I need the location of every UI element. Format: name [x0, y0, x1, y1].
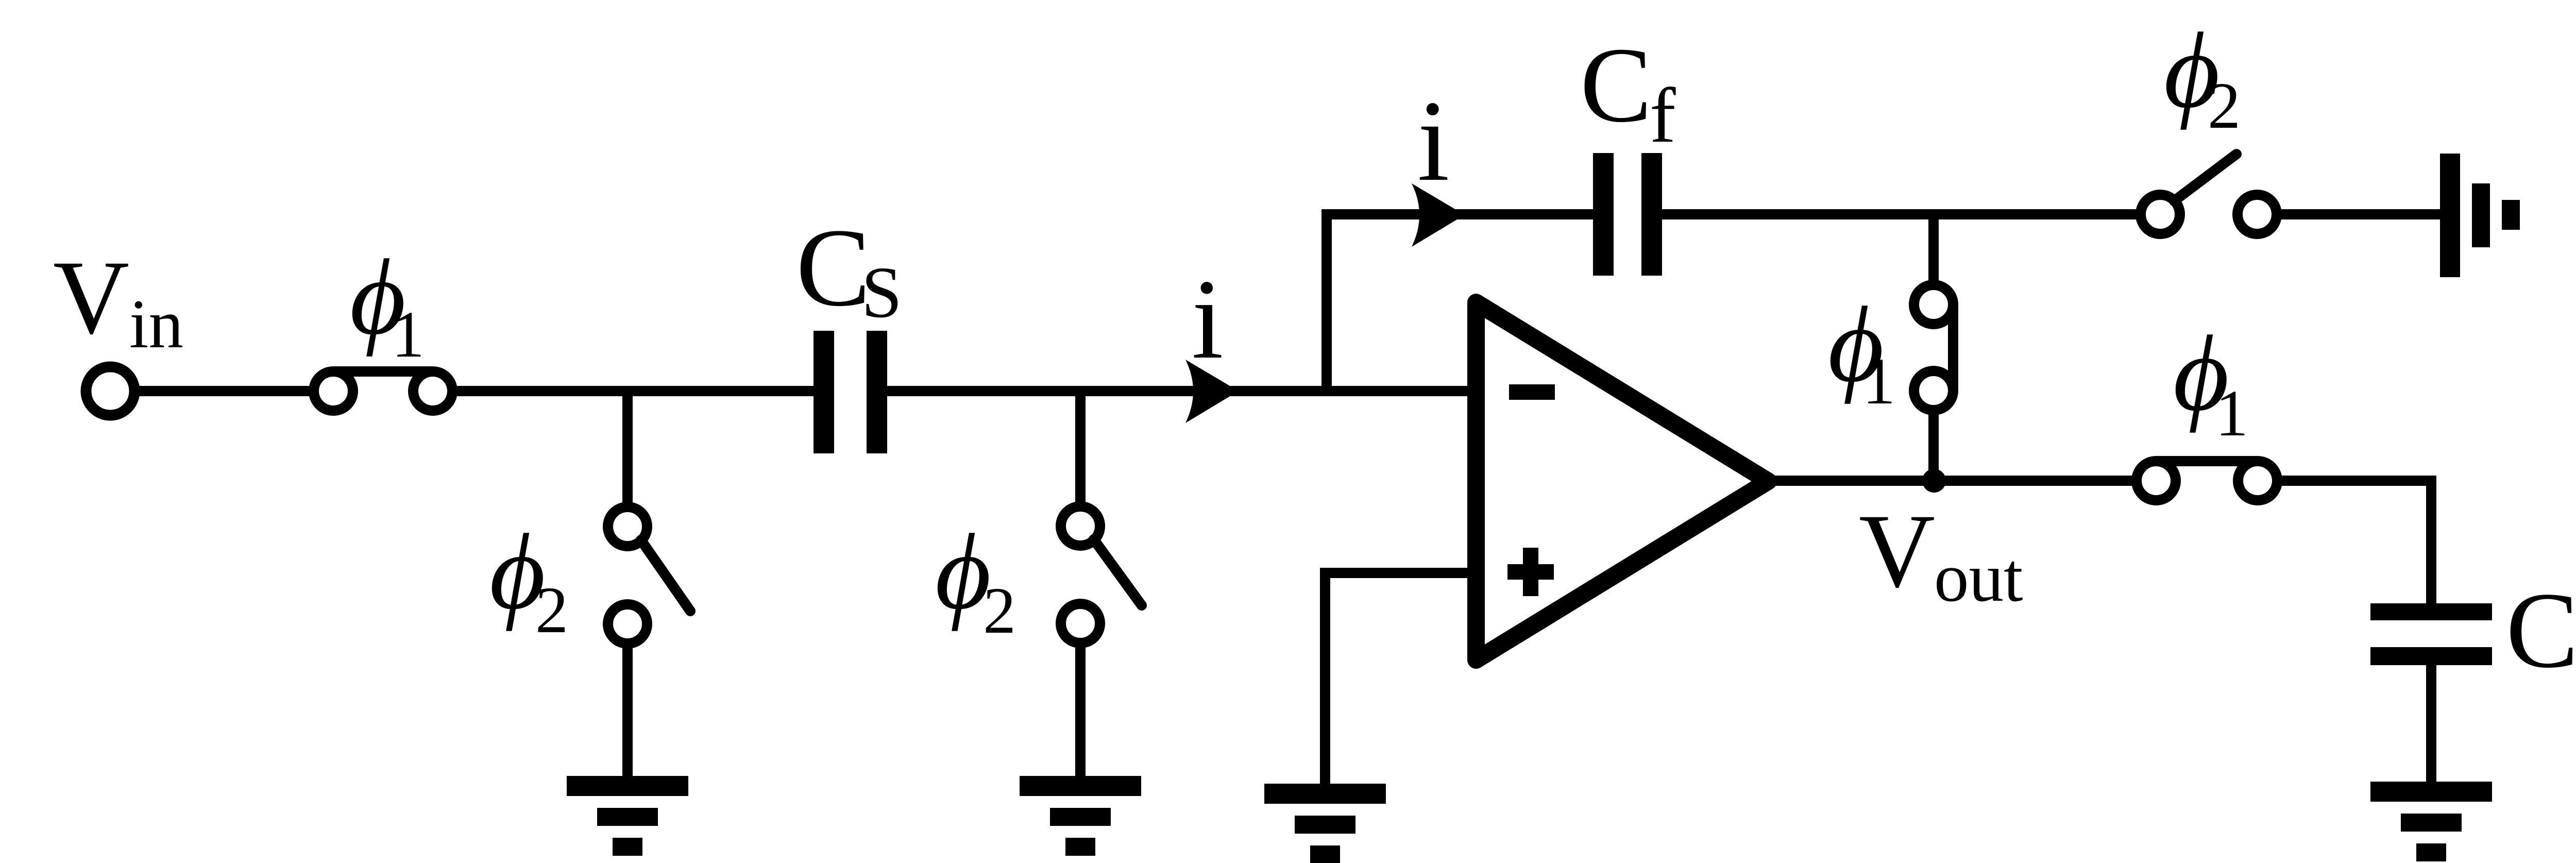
switch S4 phi1 (feedback vertical switch, closed) [1914, 285, 1953, 410]
wire from second phi2 switch to ground [1075, 646, 1086, 778]
svg-text:1: 1 [1862, 345, 1895, 418]
output wire from op-amp to switch phi1 [1767, 476, 2132, 486]
wire branch down to vertical switch phi1 [1928, 214, 1939, 281]
wire branch down to switch phi2 (first) [622, 391, 633, 503]
switch S5 phi2 (reset switch top right, open) [2141, 154, 2277, 234]
ground (below CL) [2370, 782, 2492, 861]
svg-text:S: S [861, 251, 902, 333]
svg-text:C: C [2506, 570, 2576, 690]
svg-text:in: in [129, 286, 183, 363]
switch S3 phi2 (shunt switch after CS, open) [1061, 506, 1142, 643]
wire from vertical phi1 switch down to output node [1928, 414, 1939, 481]
label phi2 (first shunt switch) [489, 512, 568, 647]
label phi1 (input switch) [350, 238, 425, 371]
svg-text:C: C [1580, 26, 1652, 145]
label phi2 (second shunt switch) [935, 512, 1016, 647]
label Cf [1580, 26, 1676, 159]
feedback wire to Cf [1321, 209, 1594, 219]
wire from CL to ground [2426, 665, 2436, 784]
switch S2 phi2 (input shunt switch, open) [608, 507, 690, 644]
label CS [796, 206, 902, 333]
wire from switch phi1 to capacitor CS [456, 386, 815, 396]
feedback branch riser wire [1321, 214, 1332, 396]
wire from switch phi2 to ground [622, 647, 633, 778]
wire from Vin terminal to switch phi1 [134, 386, 310, 396]
wire branch down to switch phi2 (second) [1075, 391, 1086, 502]
svg-text:1: 1 [2215, 377, 2248, 450]
capacitor CL [2370, 603, 2492, 665]
label Vin [53, 239, 183, 363]
input terminal Vin [86, 367, 134, 415]
svg-text:out: out [1934, 539, 2023, 616]
current arrow i on feedback wire [1412, 183, 1465, 247]
svg-text:2: 2 [983, 574, 1016, 647]
ground (right side, rotated) [2440, 154, 2520, 277]
op-amp plus sign [1507, 564, 1554, 580]
label phi2 (reset switch top right) [2164, 11, 2241, 142]
svg-text:2: 2 [535, 573, 568, 647]
svg-text:V: V [1859, 493, 1935, 610]
wire from reset switch to right ground [2281, 209, 2443, 219]
svg-text:C: C [796, 206, 871, 329]
ground (first phi2 switch) [567, 776, 688, 856]
label phi1 (feedback vertical switch) [1828, 285, 1895, 418]
svg-text:i: i [1417, 76, 1450, 205]
svg-text:i: i [1192, 256, 1224, 383]
capacitor Cf [1593, 153, 1662, 276]
current arrow i on main wire [1185, 360, 1239, 423]
ground (second phi2 switch) [1020, 776, 1141, 856]
label Vout [1859, 493, 2023, 616]
switch S6 phi1 (output series switch, closed) [2137, 461, 2277, 500]
label CL [2506, 570, 2576, 695]
capacitor CS [814, 331, 887, 453]
node Vout junction dot [1922, 469, 1946, 493]
op-amp U1 [1476, 302, 1768, 660]
switch S1 phi1 (input series switch) [314, 371, 452, 411]
svg-text:f: f [1650, 72, 1676, 159]
wire from op-amp noninverting input to ground riser [1325, 573, 1468, 786]
ground (op-amp noninverting input) [1264, 784, 1386, 863]
label phi1 (output switch) [2173, 314, 2248, 450]
svg-text:V: V [53, 239, 129, 356]
svg-text:2: 2 [2208, 69, 2241, 142]
feedback wire from Cf to reset switch phi2 [1662, 209, 2137, 219]
svg-text:1: 1 [392, 298, 425, 371]
op-amp minus sign [1509, 384, 1555, 400]
wire from output switch to CL [2281, 481, 2431, 603]
wire from CS to op-amp inverting input [887, 386, 1469, 396]
